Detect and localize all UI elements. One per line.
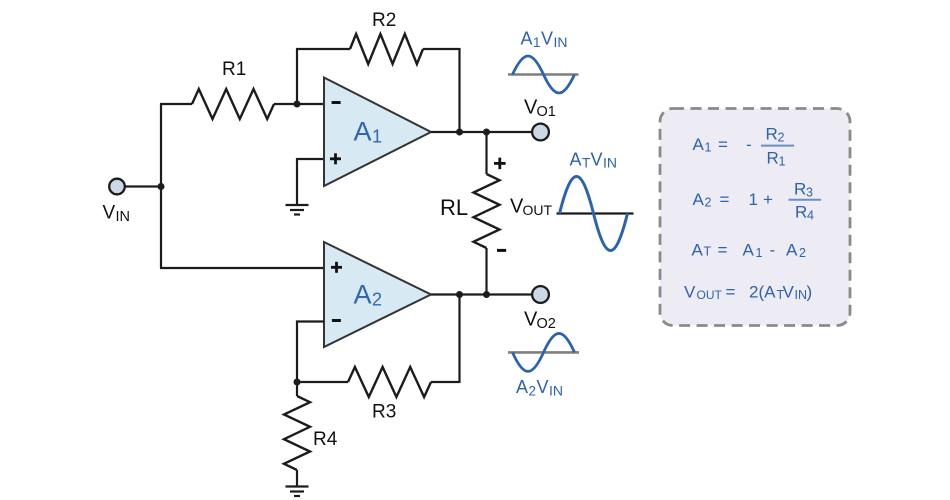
- svg-text:R1: R1: [222, 59, 246, 80]
- svg-text:R3: R3: [372, 402, 396, 423]
- A1 inverting pin sign: [332, 101, 341, 104]
- A1 noninverting pin sign: [330, 153, 341, 164]
- wire: A2 output row: [431, 293, 532, 295]
- svg-text:R2: R2: [372, 10, 396, 31]
- wire: RL bottom lead: [485, 248, 487, 295]
- wire: across to A2 noninverting input: [160, 267, 324, 269]
- waveform sine A2VIN: [513, 333, 575, 371]
- svg-text:A: A: [743, 241, 755, 260]
- formula line 4: VOUT = 2(ATVIN): [684, 282, 812, 302]
- svg-text:OUT: OUT: [697, 288, 723, 302]
- svg-text:T: T: [704, 245, 712, 259]
- svg-text:IN: IN: [795, 288, 808, 302]
- wire: feedback vertical up to R2 row: [296, 49, 298, 104]
- svg-text:-: -: [746, 135, 752, 154]
- node: A1 inverting input junction: [294, 101, 301, 108]
- formula box: [660, 109, 850, 326]
- wire: R2 left lead: [296, 48, 350, 50]
- svg-text:V: V: [684, 282, 696, 301]
- wire: input junction vertical column: [160, 104, 162, 268]
- svg-text:2: 2: [372, 290, 382, 310]
- wire: A2 inverting input to feedback column: [297, 322, 324, 383]
- svg-text:=: =: [718, 241, 728, 260]
- svg-text:A: A: [516, 377, 528, 397]
- wire: R3 left lead: [297, 381, 348, 383]
- wire: RL top lead: [485, 132, 487, 174]
- waveform axis A1VIN: [508, 73, 579, 76]
- svg-text:A: A: [693, 135, 705, 154]
- op-amp U2 (A2): [324, 242, 431, 347]
- svg-text:=: =: [720, 190, 730, 209]
- resistor RL: [474, 174, 500, 248]
- node: R3/R4 junction: [294, 379, 301, 386]
- resistor R3: [348, 367, 431, 397]
- svg-text:O1: O1: [537, 104, 556, 120]
- label - (VOUT polarity): [497, 249, 506, 252]
- svg-text:A: A: [692, 241, 704, 260]
- waveform sine A1VIN: [513, 56, 575, 93]
- svg-text:2(A: 2(A: [749, 282, 776, 301]
- formula line 2: A2 = 1 + R3/R4: [693, 180, 822, 223]
- svg-text:1: 1: [749, 190, 758, 209]
- svg-text:2: 2: [799, 246, 806, 260]
- svg-text:R: R: [766, 125, 778, 144]
- wire: A1 noninverting input: [297, 158, 324, 160]
- node: feedback junction (R2): [456, 129, 463, 136]
- svg-text:1: 1: [372, 127, 382, 147]
- node: R3 junction on output: [456, 291, 463, 298]
- svg-text:OUT: OUT: [523, 202, 553, 218]
- terminal VO1: [532, 124, 549, 141]
- svg-text:IN: IN: [603, 155, 617, 171]
- svg-text:A: A: [570, 150, 582, 170]
- svg-text:=: =: [726, 282, 736, 301]
- A2 noninverting pin sign: [331, 262, 342, 273]
- svg-text:1: 1: [779, 155, 786, 169]
- svg-text:3: 3: [806, 186, 813, 200]
- formula line 1: A1 = -R2/R1: [693, 125, 795, 169]
- svg-text:+: +: [763, 190, 773, 209]
- svg-text:1: 1: [705, 141, 712, 155]
- wire: R3 vertical up to A2 output node: [458, 295, 460, 384]
- svg-text:RL: RL: [440, 195, 468, 220]
- svg-text:IN: IN: [549, 383, 563, 399]
- svg-text:2: 2: [529, 384, 537, 399]
- node: VIN junction: [158, 183, 165, 190]
- svg-text:R: R: [794, 180, 806, 199]
- svg-text:A: A: [354, 280, 372, 310]
- svg-text:IN: IN: [554, 34, 568, 50]
- formula line 3: AT = A1 - A2: [692, 241, 807, 261]
- wire: R4 top lead: [296, 382, 298, 396]
- svg-text:): ): [807, 282, 813, 301]
- wire: R2 right vertical down to A1 output node: [458, 48, 460, 132]
- svg-text:=: =: [718, 135, 728, 154]
- svg-text:1: 1: [533, 35, 541, 50]
- wire: R3 right lead: [431, 381, 460, 383]
- svg-text:O2: O2: [537, 316, 556, 332]
- wire: A1 + input down to ground: [296, 158, 298, 205]
- resistor R2: [350, 34, 423, 64]
- waveform axis A2VIN: [508, 351, 579, 354]
- svg-text:T: T: [582, 156, 590, 171]
- svg-text:R: R: [795, 203, 807, 222]
- wire: R1 to A1 inverting input: [274, 103, 324, 105]
- wire: VIN terminal to input junction: [125, 185, 161, 187]
- wire: A1 output row: [431, 131, 532, 133]
- A2 inverting pin sign: [332, 319, 341, 322]
- svg-text:R: R: [767, 149, 779, 168]
- ground below R4: [286, 487, 309, 497]
- wire: R1 left lead: [160, 103, 192, 105]
- waveform sine ATVIN: [560, 177, 628, 251]
- svg-text:V: V: [541, 29, 553, 49]
- node: RL top junction: [483, 129, 490, 136]
- svg-text:2: 2: [705, 196, 712, 210]
- svg-text:-: -: [770, 241, 776, 260]
- svg-text:R4: R4: [313, 429, 338, 450]
- terminal VIN: [109, 179, 125, 195]
- svg-text:V: V: [537, 377, 549, 397]
- label + (VOUT polarity): [494, 158, 506, 170]
- node: RL bottom junction: [483, 291, 490, 298]
- svg-text:4: 4: [807, 209, 814, 223]
- wire: R4 bottom lead: [296, 470, 298, 487]
- svg-text:V: V: [103, 203, 116, 224]
- svg-text:V: V: [591, 150, 603, 170]
- svg-text:A: A: [354, 117, 372, 147]
- resistor R1: [192, 89, 274, 119]
- svg-text:A: A: [693, 190, 705, 209]
- svg-text:IN: IN: [116, 209, 131, 225]
- terminal VO2: [532, 286, 549, 303]
- svg-text:2: 2: [778, 131, 785, 145]
- svg-text:V: V: [783, 282, 795, 301]
- ground A1: [286, 205, 309, 215]
- wire: R2 right lead: [423, 48, 460, 50]
- resistor R4: [284, 396, 310, 470]
- op-amp U1 (A1): [324, 78, 431, 187]
- svg-text:A: A: [521, 29, 533, 49]
- svg-text:A: A: [786, 241, 798, 260]
- waveform axis ATVIN: [557, 212, 634, 214]
- svg-text:1: 1: [756, 246, 763, 260]
